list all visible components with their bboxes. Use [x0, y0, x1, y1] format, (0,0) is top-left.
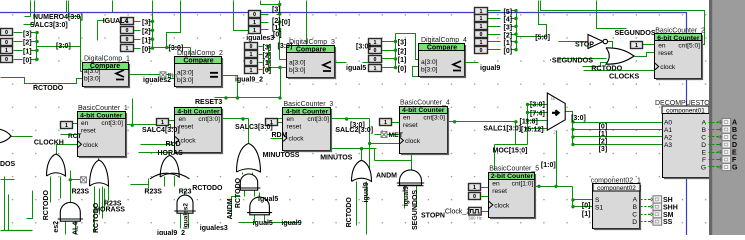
svg-text:RCTODO: RCTODO: [192, 185, 223, 192]
svg-text:RCT: RCT: [68, 133, 81, 140]
svg-text:a[3:0]: a[3:0]: [84, 68, 101, 75]
svg-text:CLOCKH: CLOCKH: [34, 139, 64, 146]
svg-text:1: 1: [250, 52, 253, 58]
svg-text:clock: clock: [289, 136, 305, 143]
svg-text:DigitalComp_1: DigitalComp_1: [84, 56, 130, 63]
svg-text:iguales2: iguales2: [143, 77, 171, 84]
svg-text:0: 0: [5, 30, 8, 36]
svg-text:[1]: [1]: [599, 131, 608, 138]
svg-text:B: B: [633, 204, 638, 211]
svg-text:a[3:0]: a[3:0]: [289, 60, 306, 67]
svg-text:S: S: [595, 197, 600, 204]
svg-text:b[3:0]: b[3:0]: [177, 77, 194, 84]
svg-text:·SEGUNDOS: ·SEGUNDOS: [550, 55, 594, 64]
svg-text:clock: clock: [405, 138, 421, 145]
svg-text:[1]: [1]: [582, 211, 591, 218]
svg-text:1: 1: [161, 120, 164, 126]
svg-text:[1]: [1]: [263, 60, 272, 67]
svg-text:en: en: [403, 115, 411, 122]
svg-text:[1]: [1]: [398, 57, 407, 64]
svg-text:0: 0: [473, 194, 476, 200]
svg-text:[3]: [3]: [23, 31, 32, 38]
svg-text:DigitalComp_3: DigitalComp_3: [289, 39, 335, 46]
svg-text:iguales3: iguales3: [246, 35, 274, 42]
svg-text:en: en: [492, 181, 500, 188]
svg-text:0: 0: [480, 32, 483, 38]
svg-text:cnt[3:0]: cnt[3:0]: [307, 116, 329, 123]
svg-text:C: C: [732, 135, 737, 142]
svg-text:igual5: igual5: [346, 65, 366, 72]
svg-text:A0: A0: [664, 119, 672, 126]
svg-text:[0]: [0]: [263, 68, 272, 75]
svg-text:0: 0: [480, 48, 483, 54]
svg-text:ANDM: ANDM: [227, 198, 234, 219]
svg-text:0: 0: [253, 12, 256, 18]
svg-text:Compare: Compare: [427, 45, 457, 52]
svg-text:SEGUNDOS: SEGUNDOS: [615, 28, 656, 37]
svg-text:[3]: [3]: [398, 40, 407, 47]
svg-text:RUD: RUD: [166, 141, 181, 148]
svg-text:B: B: [702, 127, 707, 134]
svg-text:DigitalComp_2: DigitalComp_2: [177, 50, 223, 57]
svg-text:es2: es2: [53, 221, 60, 233]
svg-text:1: 1: [5, 48, 8, 54]
svg-text:clock: clock: [494, 202, 510, 209]
svg-text:SS: SS: [663, 219, 673, 226]
svg-text:[3]: [3]: [504, 25, 513, 32]
svg-text:1: 1: [473, 185, 476, 191]
svg-text:[3:0]: [3:0]: [571, 115, 586, 122]
svg-text:0: 0: [126, 37, 129, 43]
svg-text:b[3:0]: b[3:0]: [84, 76, 101, 83]
svg-text:B: B: [732, 127, 737, 134]
svg-text:[3:0]: [3:0]: [530, 101, 545, 108]
svg-text:SALC3[3:0]: SALC3[3:0]: [235, 124, 273, 131]
svg-text:[1]: [1]: [504, 40, 513, 47]
svg-text:D: D: [632, 219, 637, 226]
svg-text:cnt[3:0]: cnt[3:0]: [101, 120, 123, 127]
svg-text:[0]: [0]: [504, 48, 513, 55]
svg-text:A1: A1: [664, 127, 672, 134]
svg-text:component01: component01: [666, 107, 705, 114]
svg-text:reset: reset: [658, 50, 673, 57]
svg-text:0: 0: [5, 57, 8, 63]
svg-text:cnt[3:0]: cnt[3:0]: [198, 116, 220, 123]
svg-text:1: 1: [635, 43, 638, 49]
svg-text:clock: clock: [83, 142, 99, 149]
svg-text:0: 0: [250, 44, 253, 50]
svg-text:[0]: [0]: [398, 66, 407, 73]
svg-text:1: 1: [126, 46, 129, 52]
svg-text:SALC4[3:0]: SALC4[3:0]: [142, 127, 180, 134]
svg-text:SM: SM: [663, 212, 674, 219]
svg-text:[0]: [0]: [599, 124, 608, 131]
svg-text:igual9: igual9: [363, 182, 370, 202]
svg-text:[3:0]: [3:0]: [350, 122, 365, 129]
svg-text:[0]: [0]: [273, 32, 282, 39]
svg-text:4-bit Counter: 4-bit Counter: [286, 109, 329, 116]
svg-text:RCTODO: RCTODO: [235, 177, 242, 208]
svg-text:SEGUNDOS: SEGUNDOS: [412, 190, 419, 230]
svg-text:F: F: [702, 157, 706, 164]
svg-text:[2]: [2]: [263, 53, 272, 60]
svg-text:4-bit Counter: 4-bit Counter: [80, 113, 123, 120]
svg-text:IGUAL4: IGUAL4: [103, 18, 129, 25]
svg-text:RESET3: RESET3: [195, 99, 222, 106]
svg-text:cnt[5:0]: cnt[5:0]: [678, 42, 700, 49]
svg-text:0: 0: [5, 40, 8, 46]
svg-text:BasicCounter_5: BasicCounter_5: [489, 166, 539, 173]
svg-text:1: 1: [250, 68, 253, 74]
svg-text:[5:0]: [5:0]: [535, 35, 550, 42]
svg-text:[2]: [2]: [272, 18, 281, 25]
svg-text:[2]: [2]: [23, 40, 32, 47]
svg-text:[15:12]: [15:12]: [521, 127, 544, 134]
svg-text:[3:0]: [3:0]: [356, 44, 371, 51]
svg-text:500 Hz: 500 Hz: [469, 216, 482, 221]
svg-text:RCTODO: RCTODO: [93, 202, 100, 233]
svg-text:A3: A3: [664, 142, 672, 149]
svg-text:1: 1: [253, 20, 256, 26]
svg-text:Compare: Compare: [296, 47, 326, 54]
svg-text:RCTODO: RCTODO: [43, 190, 50, 221]
svg-text:1: 1: [65, 123, 68, 129]
svg-text:0: 0: [374, 57, 377, 63]
svg-text:R23S: R23S: [72, 189, 90, 196]
svg-text:2-bit Counter: 2-bit Counter: [491, 173, 534, 180]
svg-text:0: 0: [250, 60, 253, 66]
svg-text:C: C: [701, 134, 706, 141]
svg-text:[0]: [0]: [23, 58, 32, 65]
svg-text:BasicCounter_4: BasicCounter_4: [400, 100, 450, 107]
svg-text:1: 1: [374, 66, 377, 72]
svg-text:G: G: [701, 164, 706, 171]
svg-text:D: D: [701, 142, 706, 149]
svg-text:0: 0: [126, 28, 129, 34]
svg-text:en: en: [81, 120, 89, 127]
svg-text:[11:8]: [11:8]: [520, 118, 538, 125]
svg-text:S1: S1: [595, 205, 603, 212]
svg-text:[2]: [2]: [142, 29, 151, 36]
svg-text:RDM: RDM: [272, 132, 288, 139]
svg-text:b[3:0]: b[3:0]: [421, 67, 438, 74]
svg-text:1: 1: [253, 28, 256, 34]
svg-text:BasicCounter_3: BasicCounter_3: [284, 101, 334, 108]
svg-text:SHH: SHH: [663, 204, 678, 211]
svg-text:E: E: [702, 149, 707, 156]
svg-text:a[3:0]: a[3:0]: [421, 59, 438, 66]
svg-text:[1:0]: [1:0]: [541, 162, 556, 169]
svg-text:[0]: [0]: [142, 46, 151, 53]
svg-text:MET: MET: [389, 132, 404, 139]
svg-text:1: 1: [384, 120, 387, 126]
svg-text:igual5: igual5: [253, 220, 273, 227]
svg-text:[0]: [0]: [582, 202, 591, 209]
svg-text:[2]: [2]: [504, 32, 513, 39]
svg-text:RCTODO: RCTODO: [346, 197, 353, 228]
svg-text:SH: SH: [663, 197, 673, 204]
svg-text:[3]: [3]: [142, 20, 151, 27]
svg-text:0: 0: [374, 48, 377, 54]
svg-text:reset: reset: [492, 188, 507, 195]
svg-text:[0]: [0]: [282, 19, 291, 26]
svg-text:reset: reset: [179, 124, 194, 131]
svg-text:[3]: [3]: [272, 7, 281, 14]
svg-text:A2: A2: [664, 134, 672, 141]
svg-text:ANDM: ANDM: [376, 173, 397, 180]
svg-text:en: en: [658, 42, 666, 49]
svg-text:reset: reset: [287, 124, 302, 131]
svg-text:iguales3: iguales3: [200, 225, 228, 232]
svg-text:clock: clock: [181, 138, 197, 145]
svg-text:R23: R23: [179, 188, 192, 195]
svg-text:[1]: [1]: [23, 49, 32, 56]
svg-text:RCTODO: RCTODO: [33, 85, 64, 92]
svg-text:[3]: [3]: [599, 146, 608, 153]
svg-text:A: A: [633, 197, 638, 204]
svg-text:en: en: [287, 116, 295, 123]
svg-text:1: 1: [374, 40, 377, 46]
svg-text:BasicCounter_1: BasicCounter_1: [78, 105, 128, 112]
svg-text:1: 1: [480, 40, 483, 46]
svg-text:G: G: [732, 165, 738, 172]
svg-text:F: F: [732, 157, 737, 164]
svg-text:NUMERO4[3:0]: NUMERO4[3:0]: [33, 14, 83, 21]
svg-text:AL4: AL4: [73, 222, 80, 235]
svg-text:STOPN: STOPN: [421, 212, 445, 219]
svg-text:igual9_2: igual9_2: [235, 77, 263, 84]
svg-text:DOS: DOS: [0, 161, 16, 168]
svg-text:C: C: [632, 212, 637, 219]
svg-text:A: A: [702, 119, 707, 126]
svg-text:igual9: igual9: [480, 65, 500, 72]
svg-text:[2]: [2]: [599, 139, 608, 146]
svg-text:MINUTOSS: MINUTOSS: [263, 152, 300, 159]
svg-text:[1]: [1]: [142, 37, 151, 44]
svg-text:igual9: igual9: [281, 220, 301, 227]
svg-text:4-bit Counter: 4-bit Counter: [402, 107, 445, 114]
svg-text:MINUTOS: MINUTOS: [320, 154, 352, 161]
svg-text:igual9: igual9: [403, 186, 410, 206]
svg-text:6-bit Counter: 6-bit Counter: [657, 35, 700, 42]
svg-text:DigitalComp_4: DigitalComp_4: [421, 37, 467, 44]
svg-text:[3]: [3]: [263, 45, 272, 52]
svg-text:component02: component02: [597, 185, 636, 192]
svg-text:[3:0]: [3:0]: [169, 45, 184, 52]
svg-text:SALC3[3:0]: SALC3[3:0]: [30, 22, 68, 29]
svg-text:/4: /4: [551, 96, 555, 101]
svg-text:cnt[3:0]: cnt[3:0]: [423, 115, 445, 122]
svg-text:STOP: STOP: [575, 41, 594, 48]
svg-text:D: D: [732, 142, 737, 149]
svg-text:CLOCKS: CLOCKS: [609, 71, 640, 80]
svg-text:reset: reset: [403, 122, 418, 129]
svg-text:[3:0]: [3:0]: [56, 43, 71, 50]
svg-text:igual9_2: igual9_2: [157, 230, 185, 235]
svg-text:b[3:0]: b[3:0]: [289, 67, 306, 74]
svg-text:4-bit Counter: 4-bit Counter: [177, 109, 220, 116]
svg-text:iguales2: iguales2: [183, 203, 190, 229]
svg-text:en: en: [179, 116, 187, 123]
svg-text:[3:0]: [3:0]: [278, 43, 293, 50]
svg-text:Clock_2: Clock_2: [445, 209, 470, 216]
svg-text:igual5: igual5: [258, 196, 278, 203]
svg-text:Compare: Compare: [183, 58, 213, 65]
svg-text:E: E: [732, 150, 737, 157]
svg-text:HORAS: HORAS: [158, 150, 184, 157]
svg-text:[4]: [4]: [504, 17, 513, 24]
svg-text:clock: clock: [660, 64, 676, 71]
svg-text:[7:4]: [7:4]: [530, 110, 545, 117]
svg-text:[2]: [2]: [398, 48, 407, 55]
svg-text:1: 1: [480, 16, 483, 22]
svg-text:cnt[1:0]: cnt[1:0]: [512, 181, 534, 188]
svg-text:A: A: [732, 120, 737, 127]
svg-text:MOC[15:0]: MOC[15:0]: [493, 147, 528, 154]
svg-text:1: 1: [480, 24, 483, 30]
svg-text:R23S: R23S: [144, 188, 162, 195]
svg-text:[5]: [5]: [504, 9, 513, 16]
svg-text:a[3:0]: a[3:0]: [177, 69, 194, 76]
svg-text:reset: reset: [81, 128, 96, 135]
svg-text:SALC1[3:0]: SALC1[3:0]: [483, 126, 521, 133]
